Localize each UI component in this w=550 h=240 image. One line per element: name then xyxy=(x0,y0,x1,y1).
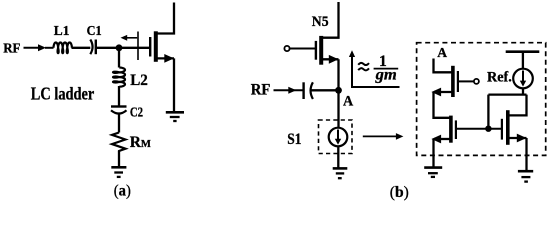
svg-text:RF: RF xyxy=(251,81,271,98)
svg-text:RM: RM xyxy=(130,134,151,151)
transistor M2 channel xyxy=(451,66,455,97)
svg-text:L1: L1 xyxy=(54,23,70,38)
current source S1 xyxy=(329,128,348,147)
transistor M1 channel xyxy=(154,31,158,62)
transistor M3 channel xyxy=(449,116,453,143)
capacitor C2 xyxy=(111,107,127,114)
transistor M4 gate bar xyxy=(501,119,503,140)
transistor M4 channel xyxy=(506,110,510,145)
svg-text:C2: C2 xyxy=(130,105,143,120)
node dot (a) xyxy=(116,44,123,51)
svg-text:A: A xyxy=(343,93,354,109)
label approx xyxy=(358,63,369,70)
resistor RM xyxy=(112,133,126,153)
junction dot gates xyxy=(485,126,491,132)
wire M2 source to M3 drain xyxy=(434,92,451,118)
transistor N5 source wire with arrow xyxy=(322,55,339,64)
svg-text:C1: C1 xyxy=(87,23,102,38)
dashed box bias cell xyxy=(417,43,546,156)
transistor M2 gate bar xyxy=(457,71,459,92)
ground under M4 xyxy=(518,171,533,181)
svg-text:S1: S1 xyxy=(287,131,301,148)
arrow looking left into ladder xyxy=(121,35,138,41)
wire cap to node A xyxy=(312,89,337,91)
wire node A to M2 drain xyxy=(434,59,452,73)
wire M3 gate to junction xyxy=(457,128,501,130)
gate terminal circle M2 xyxy=(474,79,479,84)
wire L1 to C1 xyxy=(72,47,91,49)
inductor L1 xyxy=(54,43,72,54)
capacitor Cin (b) xyxy=(304,82,313,99)
svg-text:gm: gm xyxy=(375,66,397,83)
ground under RM xyxy=(111,167,126,177)
svg-text:LC ladder: LC ladder xyxy=(31,84,95,104)
reference plane tick (a) xyxy=(137,32,139,61)
svg-text:N5: N5 xyxy=(312,14,329,30)
svg-text:A: A xyxy=(437,46,448,61)
transistor M2 source wire with arrow xyxy=(431,88,452,97)
transistor N5 gate bar xyxy=(315,41,317,60)
wire L2 to C2 xyxy=(118,86,120,107)
arrow S1 to bias cell xyxy=(363,133,404,140)
capacitor C1 xyxy=(90,40,96,55)
wire N5 source down through node A to S1 xyxy=(337,59,339,128)
transistor N5 drain wire xyxy=(322,2,339,38)
ground under M1 source xyxy=(166,112,184,121)
ground under M3 xyxy=(424,168,442,177)
wire rail to Ref source xyxy=(522,52,524,69)
inductor L2 xyxy=(113,68,125,87)
svg-text:Ref.: Ref. xyxy=(487,69,512,85)
wire RM to ground xyxy=(118,152,120,168)
arrow looking up into N5 source xyxy=(349,50,400,87)
transistor N5 channel xyxy=(319,36,323,65)
wire gate N5 xyxy=(290,48,315,50)
dashed box around S1 xyxy=(319,120,353,154)
svg-text:L2: L2 xyxy=(130,72,148,89)
wire junction up to mirror link xyxy=(487,95,489,129)
transistor M1 source wire with arrow xyxy=(157,54,175,112)
transistor M4 drain wire xyxy=(508,95,526,116)
transistor M3 source wire with arrow xyxy=(431,135,450,168)
wire C1 to gate xyxy=(96,47,149,49)
transistor M4 source wire with arrow xyxy=(508,134,526,172)
svg-text:(b): (b) xyxy=(390,184,409,201)
svg-text:(a): (a) xyxy=(114,183,131,200)
wire C2 to RM xyxy=(118,114,120,133)
supply rail bar xyxy=(506,50,540,53)
node A dot xyxy=(335,87,342,94)
wire RF arrow (b) xyxy=(274,87,304,94)
fraction bar xyxy=(374,68,399,70)
current source Ref xyxy=(513,69,533,89)
wire Ref to mirror link xyxy=(522,88,524,94)
wire RF input arrow (a) xyxy=(24,44,54,51)
wire mirror link horizontal xyxy=(488,93,526,95)
wire M2 gate to terminal xyxy=(459,80,474,82)
transistor M1 gate bar xyxy=(149,37,151,57)
svg-text:RF: RF xyxy=(3,41,20,56)
transistor M3 gate bar xyxy=(455,120,457,139)
ground under S1 xyxy=(333,168,348,178)
wire node down to L2 xyxy=(118,48,120,68)
transistor M1 drain wire xyxy=(157,3,175,34)
gate terminal circle N5 xyxy=(284,46,289,51)
wire S1 to ground xyxy=(337,146,339,168)
